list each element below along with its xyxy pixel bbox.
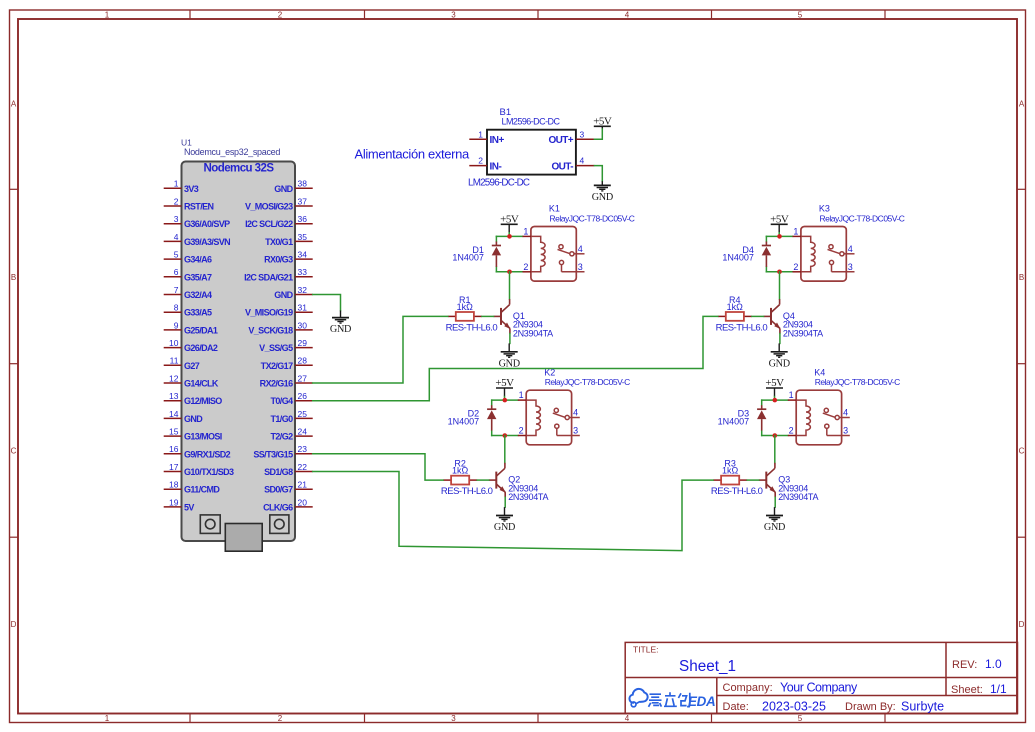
svg-text:SD1/G8: SD1/G8 (264, 467, 293, 477)
B1 part name (top) (502, 117, 561, 127)
svg-text:3: 3 (580, 129, 585, 139)
svg-text:30: 30 (298, 320, 308, 330)
svg-text:Drawn By:: Drawn By: (845, 701, 896, 713)
svg-text:G33/A5: G33/A5 (184, 308, 212, 318)
svg-text:2N3904TA: 2N3904TA (508, 492, 548, 502)
junction top (K1) (507, 234, 512, 239)
resistor R1 body (456, 312, 474, 321)
svg-text:5: 5 (798, 11, 803, 20)
relay K2 pin 1 stub (518, 390, 526, 400)
junction bottom (K2) (503, 433, 508, 438)
svg-text:1: 1 (519, 390, 524, 400)
U1 mounting hole left (200, 515, 220, 534)
svg-text:6: 6 (174, 267, 179, 277)
relay K4 pin 4 stub (839, 408, 850, 418)
svg-text:OUT+: OUT+ (548, 135, 573, 146)
svg-text:2: 2 (278, 11, 283, 20)
GND net flag (Q1) (499, 343, 520, 369)
svg-text:T2/G2: T2/G2 (270, 432, 293, 442)
svg-text:4: 4 (174, 232, 179, 242)
svg-text:U1: U1 (181, 138, 192, 148)
wire bottom net K2: diode to relay pin 2 (492, 435, 518, 437)
U1 pin 11 (G27) (164, 356, 200, 371)
svg-text:Alimentación externa: Alimentación externa (355, 147, 471, 162)
svg-text:SS/T3/G15: SS/T3/G15 (253, 449, 293, 459)
relay K3 pin 4 stub (844, 244, 855, 254)
svg-text:G34/A6: G34/A6 (184, 255, 212, 265)
B1 part name (bottom) (468, 177, 530, 188)
wire bottom net K3: diode to relay pin 2 (766, 271, 792, 273)
wire Q4 emitter to GND (779, 334, 781, 344)
svg-text:14: 14 (169, 409, 179, 419)
B1 pin 3 OUT+ (548, 129, 594, 146)
relay K4 JQC-T78-DC05V-C (796, 390, 841, 445)
svg-text:RST/EN: RST/EN (184, 202, 214, 212)
diode D2 labels (448, 409, 480, 427)
relay K4 pin 3 stub (827, 426, 850, 436)
wire K1 bottom junction to Q1 collector (509, 272, 511, 299)
svg-text:4: 4 (848, 244, 853, 254)
U1 pin 6 (G35/A7) (164, 267, 212, 282)
svg-text:A: A (11, 100, 17, 109)
svg-text:K4: K4 (814, 367, 825, 377)
diode D3 labels (718, 409, 750, 427)
junction bottom (K4) (773, 433, 778, 438)
svg-text:G13/MOSI: G13/MOSI (184, 432, 222, 442)
svg-text:2: 2 (793, 262, 798, 272)
svg-text:38: 38 (298, 179, 308, 189)
svg-text:TITLE:: TITLE: (633, 645, 659, 655)
+5V net flag (K3) (770, 214, 789, 233)
relay K3 pin 1 stub (793, 226, 801, 236)
wire U1 pin27 (RX2/G16) to R1 (313, 316, 448, 383)
svg-text:1kΩ: 1kΩ (722, 466, 739, 476)
resistor R2 1k leads (443, 479, 477, 481)
svg-text:G35/A7: G35/A7 (184, 272, 212, 282)
svg-text:1: 1 (105, 714, 110, 723)
U1 pin 33 (I2C SDA/G21) (244, 267, 313, 282)
wire K4 bottom junction to Q3 collector (774, 436, 776, 463)
svg-text:36: 36 (298, 214, 308, 224)
resistor R4 labels (716, 295, 768, 334)
U1 pin 5 (G34/A6) (164, 250, 212, 265)
svg-text:10: 10 (169, 338, 179, 348)
U1 pin 17 (G10/TX1/SD3) (164, 462, 234, 477)
svg-text:Nodemcu_esp32_spaced: Nodemcu_esp32_spaced (184, 147, 280, 157)
svg-text:RES-TH-L6.0: RES-TH-L6.0 (441, 486, 493, 497)
svg-text:19: 19 (169, 497, 179, 507)
svg-text:3: 3 (174, 214, 179, 224)
svg-text:D: D (11, 620, 17, 629)
relay K4 pin 1 stub (788, 390, 796, 400)
svg-text:TX2/G17: TX2/G17 (261, 361, 293, 371)
svg-text:1N4007: 1N4007 (452, 253, 484, 263)
U1 pin 18 (G11/CMD) (164, 480, 221, 495)
svg-text:20: 20 (298, 497, 308, 507)
U1 pin 22 (SD1/G8) (264, 462, 313, 477)
relay K1 pin 1 stub (523, 226, 531, 236)
svg-text:T1/G0: T1/G0 (270, 414, 293, 424)
diode D3 1N4007 (757, 405, 766, 430)
U1 pin 36 (I2C SCL/G22) (245, 214, 313, 229)
wire U1 pin22 (SD1/G8) to R3 (313, 472, 713, 551)
U1 pin 7 (G32/A4) (164, 285, 212, 300)
wire Q3 emitter to GND (774, 497, 776, 507)
svg-text:G14/CLK: G14/CLK (184, 379, 219, 389)
resistor R1 1k leads (448, 315, 482, 317)
relay K2 pin 3 stub (557, 426, 580, 436)
junction top (K4) (773, 398, 778, 403)
svg-text:2N3904TA: 2N3904TA (783, 328, 823, 338)
svg-text:1N4007: 1N4007 (718, 416, 750, 426)
U1 pin 13 (G12/MISO) (164, 391, 223, 406)
U1 pin 25 (T1/G0) (270, 409, 312, 424)
svg-text:GND: GND (764, 522, 785, 533)
relay K3 JQC-T78-DC05V-C (801, 227, 846, 282)
svg-text:V_MOSI/G23: V_MOSI/G23 (245, 202, 293, 212)
svg-text:5: 5 (798, 714, 803, 723)
svg-text:I2C SDA/G21: I2C SDA/G21 (244, 272, 293, 282)
relay K1 pin 3 stub (562, 262, 585, 272)
transistor Q2 labels (508, 475, 548, 503)
relay K1 pin 2 stub (523, 262, 531, 272)
svg-text:LM2596-DC-DC: LM2596-DC-DC (502, 117, 561, 127)
U1 pin 16 (G9/RX1/SD2) (164, 444, 231, 459)
svg-text:4: 4 (625, 11, 630, 20)
svg-text:G36/A0/SVP: G36/A0/SVP (184, 219, 230, 229)
svg-text:3: 3 (573, 426, 578, 436)
wire diode D3 legs (761, 400, 763, 435)
U1 pin 21 (SD0/G7) (264, 480, 313, 495)
svg-text:B: B (11, 273, 16, 282)
svg-text:Your Company: Your Company (780, 681, 858, 695)
svg-text:3: 3 (451, 714, 456, 723)
GND net flag (Q2) (494, 507, 515, 533)
svg-text:A: A (1019, 100, 1025, 109)
wire bottom net K4: diode to relay pin 2 (762, 435, 788, 437)
svg-text:GND: GND (494, 522, 515, 533)
svg-text:1kΩ: 1kΩ (457, 302, 474, 312)
svg-text:15: 15 (169, 427, 179, 437)
diode D4 1N4007 (762, 242, 771, 267)
svg-text:V_MISO/G19: V_MISO/G19 (245, 308, 293, 318)
GND net flag (U1 pin 32) (330, 311, 351, 336)
svg-text:G12/MISO: G12/MISO (184, 396, 222, 406)
svg-text:34: 34 (298, 250, 308, 260)
wire B1 OUT- to GND flag (594, 166, 602, 182)
svg-text:7: 7 (174, 285, 179, 295)
svg-text:RX2/G16: RX2/G16 (260, 379, 293, 389)
wire diode D1 legs (495, 236, 497, 271)
junction bottom (K3) (777, 270, 782, 275)
wire top net K4: diode to relay pin 1 (762, 399, 788, 401)
svg-text:G11/CMD: G11/CMD (184, 485, 220, 495)
svg-text:V_SCK/G18: V_SCK/G18 (248, 325, 293, 335)
wire +5V to top junction (K4) (774, 397, 776, 401)
relay K2 pin 2 stub (518, 426, 526, 436)
svg-text:1.0: 1.0 (985, 657, 1002, 671)
+5V net flag (K1) (500, 214, 519, 233)
svg-text:C: C (1019, 447, 1025, 456)
svg-text:B: B (1019, 273, 1024, 282)
svg-text:27: 27 (298, 373, 308, 383)
svg-text:IN+: IN+ (490, 135, 505, 146)
junction top (K3) (777, 234, 782, 239)
svg-text:RES-TH-L6.0: RES-TH-L6.0 (711, 486, 763, 497)
svg-text:16: 16 (169, 444, 179, 454)
wire bottom net K1: diode to relay pin 2 (496, 271, 522, 273)
GND net flag (Q4) (769, 343, 790, 369)
wire R4 to Q4 base (752, 315, 764, 317)
svg-text:Surbyte: Surbyte (901, 700, 944, 714)
svg-text:28: 28 (298, 356, 308, 366)
power module B1 LM2596-DC-DC (487, 130, 576, 175)
U1 pin 28 (TX2/G17) (261, 356, 313, 371)
svg-text:I2C SCL/G22: I2C SCL/G22 (245, 219, 293, 229)
wire K2 bottom junction to Q2 collector (504, 436, 506, 463)
B1 reference designator (500, 107, 512, 118)
U1 pin 35 (TX0/G1) (265, 232, 313, 247)
resistor R1 labels (446, 295, 498, 334)
svg-text:4: 4 (578, 244, 583, 254)
svg-text:5V: 5V (184, 502, 194, 512)
wire top net K3: diode to relay pin 1 (766, 235, 792, 237)
relay K1 labels (549, 204, 635, 224)
svg-text:4: 4 (843, 408, 848, 418)
svg-text:3: 3 (451, 11, 456, 20)
svg-text:22: 22 (298, 462, 308, 472)
diode D1 labels (452, 245, 484, 263)
wire R1 to Q1 base (482, 315, 494, 317)
wire U1 pin32 GND net (313, 295, 341, 311)
svg-text:K1: K1 (549, 204, 560, 214)
svg-text:SD0/G7: SD0/G7 (264, 485, 293, 495)
transistor Q3 labels (778, 475, 818, 503)
+5V net flag (K2) (495, 377, 514, 396)
U1 pin 1 (3V3) (164, 179, 199, 194)
transistor Q4 labels (783, 311, 823, 339)
svg-text:2023-03-25: 2023-03-25 (762, 700, 826, 714)
wire Q1 emitter to GND (509, 334, 511, 344)
U1 pin 4 (G39/A3/SVN) (164, 232, 230, 247)
U1 pin 26 (T0/G4) (270, 391, 312, 406)
svg-text:G39/A3/SVN: G39/A3/SVN (184, 237, 230, 247)
diode D4 labels (722, 245, 754, 263)
title block (625, 642, 1017, 713)
svg-text:3: 3 (843, 426, 848, 436)
svg-text:35: 35 (298, 232, 308, 242)
svg-text:4: 4 (625, 714, 630, 723)
U1 pin 10 (G26/DA2) (164, 338, 218, 353)
resistor R4 body (726, 312, 744, 321)
U1 pin 3 (G36/A0/SVP) (164, 214, 230, 229)
svg-text:OUT-: OUT- (552, 161, 574, 172)
svg-text:18: 18 (169, 480, 179, 490)
resistor R2 body (451, 476, 469, 485)
svg-text:1kΩ: 1kΩ (727, 302, 744, 312)
U1 reference designator (181, 138, 192, 148)
wire +5V to top junction (K3) (778, 233, 780, 237)
wire R3 to Q3 base (747, 479, 759, 481)
wire B1 OUT+ to +5V flag (594, 126, 602, 139)
U1 mounting hole right (270, 515, 289, 534)
svg-text:RelayJQC-T78-DC05V-C: RelayJQC-T78-DC05V-C (550, 213, 635, 223)
svg-text:T0/G4: T0/G4 (270, 396, 293, 406)
svg-text:G9/RX1/SD2: G9/RX1/SD2 (184, 449, 231, 459)
svg-text:G32/A4: G32/A4 (184, 290, 212, 300)
U1 pin 31 (V_MISO/G19) (245, 303, 313, 318)
junction top (K2) (503, 398, 508, 403)
svg-text:23: 23 (298, 444, 308, 454)
svg-text:Sheet:: Sheet: (951, 684, 983, 696)
U1 pin 2 (RST/EN) (164, 196, 214, 211)
resistor R4 1k leads (718, 315, 752, 317)
annotation text: Alimentacion externa (355, 147, 471, 162)
+5V net flag (K4) (765, 377, 784, 396)
transistor Q2 2N3904 (489, 463, 506, 498)
svg-text:9: 9 (174, 320, 179, 330)
wire U1 pin26 (T0/G4) to R4 (313, 316, 718, 400)
svg-text:2N3904TA: 2N3904TA (513, 328, 553, 338)
svg-text:11: 11 (170, 356, 179, 366)
svg-text:Company:: Company: (723, 682, 773, 694)
U1 USB connector tab (225, 524, 262, 552)
svg-text:D: D (1019, 620, 1025, 629)
U1 title Nodemcu 32S (203, 163, 274, 175)
svg-text:3: 3 (578, 262, 583, 272)
wire top net K1: diode to relay pin 1 (496, 235, 522, 237)
svg-text:3: 3 (848, 262, 853, 272)
U1 pin 30 (V_SCK/G18) (248, 320, 312, 335)
relay K2 pin 4 stub (569, 408, 580, 418)
svg-text:1kΩ: 1kΩ (452, 466, 469, 476)
svg-text:17: 17 (169, 462, 179, 472)
wire K3 bottom junction to Q4 collector (779, 272, 781, 299)
svg-text:2: 2 (789, 426, 794, 436)
svg-text:RelayJQC-T78-DC05V-C: RelayJQC-T78-DC05V-C (545, 377, 630, 387)
svg-text:K3: K3 (819, 204, 830, 214)
svg-text:GND: GND (184, 414, 203, 424)
svg-text:1N4007: 1N4007 (722, 253, 754, 263)
resistor R3 body (721, 476, 739, 485)
svg-text:2: 2 (278, 714, 283, 723)
svg-text:RES-TH-L6.0: RES-TH-L6.0 (716, 323, 768, 334)
wire top net K2: diode to relay pin 1 (492, 399, 518, 401)
svg-text:REV:: REV: (952, 659, 977, 671)
svg-text:8: 8 (174, 303, 179, 313)
U1 pin 23 (SS/T3/G15) (253, 444, 312, 459)
svg-text:32: 32 (298, 285, 308, 295)
U1 pin 37 (V_MOSI/G23) (245, 196, 313, 211)
svg-text:GND: GND (592, 192, 613, 203)
U1 part name Nodemcu_esp32_spaced (184, 147, 280, 157)
svg-text:G26/DA2: G26/DA2 (184, 343, 218, 353)
svg-text:2N3904TA: 2N3904TA (778, 492, 818, 502)
U1 pin 32 (GND) (274, 285, 312, 300)
svg-text:1: 1 (523, 226, 528, 236)
svg-text:Sheet_1: Sheet_1 (679, 658, 736, 675)
svg-text:IN-: IN- (490, 161, 502, 172)
svg-text:GND: GND (330, 324, 351, 335)
resistor R3 labels (711, 459, 763, 498)
relay K1 JQC-T78-DC05V-C (531, 227, 576, 282)
B1 pin 2 IN- (469, 156, 501, 173)
relay K1 pin 4 stub (574, 244, 585, 254)
wire +5V to top junction (K2) (504, 397, 506, 401)
svg-text:TX0/G1: TX0/G1 (265, 237, 293, 247)
U1 pin 38 (GND) (274, 179, 312, 194)
EasyEDA logo (629, 689, 715, 709)
relay K2 JQC-T78-DC05V-C (526, 390, 571, 445)
transistor Q3 2N3904 (759, 463, 776, 498)
transistor Q4 2N3904 (764, 299, 781, 334)
svg-text:5: 5 (174, 250, 179, 260)
relay K3 labels (819, 204, 905, 224)
B1 pin 4 OUT- (552, 156, 595, 173)
relay K4 pin 2 stub (788, 426, 796, 436)
U1 pin 29 (V_SS/G5) (259, 338, 313, 353)
svg-text:29: 29 (298, 338, 308, 348)
svg-text:G10/TX1/SD3: G10/TX1/SD3 (184, 467, 234, 477)
U1 pin 20 (CLK/G6) (263, 497, 313, 512)
title block texts (633, 645, 1007, 714)
junction bottom (K1) (507, 270, 512, 275)
svg-text:1/1: 1/1 (990, 682, 1007, 696)
GND net flag (Q3) (764, 507, 785, 533)
U1 pin 8 (G33/A5) (164, 303, 212, 318)
svg-text:Nodemcu 32S: Nodemcu 32S (203, 163, 274, 175)
relay K2 labels (544, 367, 630, 387)
svg-text:C: C (11, 447, 17, 456)
svg-text:Date:: Date: (723, 701, 749, 713)
svg-text:1: 1 (174, 179, 179, 189)
svg-text:RelayJQC-T78-DC05V-C: RelayJQC-T78-DC05V-C (820, 213, 905, 223)
+5V net flag (B1 OUT+) (593, 116, 612, 128)
svg-text:GND: GND (769, 358, 790, 369)
wire diode D4 legs (765, 236, 767, 271)
relay K3 pin 2 stub (793, 262, 801, 272)
svg-text:EDA: EDA (688, 694, 715, 709)
svg-text:4: 4 (573, 408, 578, 418)
wire Q2 emitter to GND (504, 497, 506, 507)
svg-text:G27: G27 (184, 361, 200, 371)
wire U1 pin23 (SS/T3/G15) to R2 (313, 454, 443, 480)
svg-text:26: 26 (298, 391, 308, 401)
svg-text:2: 2 (174, 196, 179, 206)
resistor R3 1k leads (713, 479, 747, 481)
svg-text:13: 13 (169, 391, 179, 401)
transistor Q1 labels (513, 311, 553, 339)
svg-text:2: 2 (523, 262, 528, 272)
svg-text:12: 12 (169, 373, 179, 383)
relay K4 labels (814, 367, 900, 387)
svg-text:CLK/G6: CLK/G6 (263, 502, 293, 512)
svg-text:31: 31 (298, 303, 308, 313)
svg-text:GND: GND (274, 184, 293, 194)
svg-text:LM2596-DC-DC: LM2596-DC-DC (468, 177, 530, 188)
diode D1 1N4007 (492, 242, 501, 267)
IC U1 Nodemcu 32S module body (182, 162, 296, 542)
B1 pin 1 IN+ (469, 129, 504, 146)
svg-text:2: 2 (519, 426, 524, 436)
svg-text:1: 1 (478, 129, 483, 139)
svg-text:4: 4 (580, 156, 585, 166)
svg-text:25: 25 (298, 409, 308, 419)
svg-text:RelayJQC-T78-DC05V-C: RelayJQC-T78-DC05V-C (815, 377, 900, 387)
U1 pin 12 (G14/CLK) (164, 373, 219, 388)
svg-text:1: 1 (789, 390, 794, 400)
diode D2 1N4007 (487, 405, 496, 430)
